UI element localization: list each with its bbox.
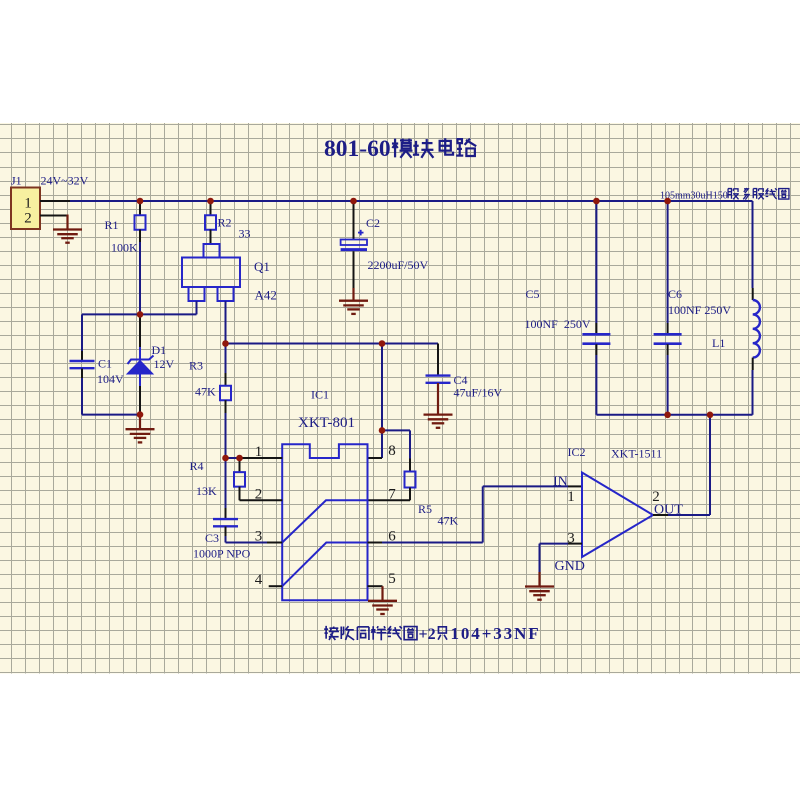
wire pin4 xyxy=(269,585,283,587)
wire R1 to node xyxy=(139,242,141,314)
wire IC2 pin3 xyxy=(540,544,583,572)
svg-text:100NF 250V: 100NF 250V xyxy=(668,303,731,317)
label XKT-1511 xyxy=(611,447,662,461)
wire pin3 xyxy=(226,542,283,544)
svg-text:104+33NF: 104+33NF xyxy=(451,624,541,643)
junction xyxy=(137,411,144,418)
label R1 xyxy=(105,218,119,232)
junction xyxy=(137,311,144,318)
svg-text:C3: C3 xyxy=(205,531,219,545)
svg-text:24V~32V: 24V~32V xyxy=(41,174,89,188)
label 100K xyxy=(111,241,138,255)
wire bottom rail xyxy=(596,414,752,416)
svg-text:2: 2 xyxy=(24,211,32,227)
svg-text:IC2: IC2 xyxy=(568,445,586,459)
IC2 pin 1 label xyxy=(567,489,575,505)
svg-text:100K: 100K xyxy=(111,241,138,255)
ground C2 xyxy=(339,288,368,314)
capacitor C4 xyxy=(426,344,451,415)
svg-text:Q1: Q1 xyxy=(254,259,270,274)
svg-text:R1: R1 xyxy=(105,218,119,232)
junction xyxy=(222,455,229,462)
pin 2 label xyxy=(255,487,263,503)
ground pin5 xyxy=(368,601,397,614)
junction xyxy=(593,198,600,205)
note 接收同样线圈+2只104+33NF xyxy=(324,624,540,643)
svg-text:R5: R5 xyxy=(418,502,432,516)
junction xyxy=(707,412,714,419)
svg-text:XKT-1511: XKT-1511 xyxy=(611,447,662,461)
label 47uF/16V xyxy=(454,386,503,400)
ground D1 xyxy=(126,415,155,443)
resistor R5 xyxy=(368,430,416,500)
inductor L1 xyxy=(753,201,760,415)
svg-text:2: 2 xyxy=(652,489,660,505)
svg-text:R2: R2 xyxy=(218,216,232,230)
label 33 xyxy=(239,227,251,241)
label 104V xyxy=(97,372,124,386)
svg-text:+2: +2 xyxy=(419,626,436,643)
pin 5 label xyxy=(388,571,396,587)
junction xyxy=(207,198,214,205)
wire pin1 xyxy=(226,457,283,459)
svg-text:104V: 104V xyxy=(97,372,124,386)
title 801-60模块电路 xyxy=(324,136,476,162)
pin 3 label xyxy=(255,529,263,545)
label R4 xyxy=(190,459,204,473)
svg-text:100NF 250V: 100NF 250V xyxy=(525,317,591,331)
svg-text:4: 4 xyxy=(255,572,263,588)
svg-text:J1: J1 xyxy=(11,174,22,188)
svg-text:5: 5 xyxy=(388,571,396,587)
wire pin8 branch xyxy=(368,430,411,458)
svg-text:A42: A42 xyxy=(255,288,277,303)
svg-text:2200uF/50V: 2200uF/50V xyxy=(368,258,429,272)
junction xyxy=(350,198,357,205)
junction xyxy=(137,198,144,205)
ground C4 xyxy=(424,415,453,428)
label IN xyxy=(553,475,568,490)
label R3 xyxy=(189,359,203,373)
label OUT xyxy=(654,503,683,518)
IC2 pin 3 label xyxy=(567,531,575,547)
svg-text:XKT-801: XKT-801 xyxy=(298,415,355,431)
svg-text:47K: 47K xyxy=(438,514,459,528)
label R5 xyxy=(418,502,432,516)
label C2 xyxy=(366,216,380,230)
pin 8 label xyxy=(388,443,396,459)
svg-text:IC1: IC1 xyxy=(311,388,329,402)
label A42 xyxy=(255,288,277,303)
svg-text:R3: R3 xyxy=(189,359,203,373)
svg-text:801-60: 801-60 xyxy=(324,136,391,162)
label 13K xyxy=(196,484,217,498)
capacitor C3 xyxy=(213,458,238,543)
label 2200uF/50V xyxy=(368,258,429,272)
wire node A horizontal xyxy=(82,313,197,315)
wire pin8 riser xyxy=(381,344,383,431)
wire OUT xyxy=(653,415,710,515)
connector J1 xyxy=(11,188,40,230)
svg-text:IN: IN xyxy=(553,475,568,490)
label GND xyxy=(555,559,585,574)
wire +V rail xyxy=(40,200,753,202)
label 100NF 250V C6 xyxy=(668,303,731,317)
pin 4 label xyxy=(255,572,263,588)
label D1 xyxy=(152,343,167,357)
junction xyxy=(236,455,243,462)
svg-text:47K: 47K xyxy=(195,385,216,399)
resistor R1 xyxy=(135,202,146,242)
svg-text:47uF/16V: 47uF/16V xyxy=(454,386,503,400)
svg-text:L1: L1 xyxy=(712,336,725,350)
label C1 xyxy=(98,357,112,371)
svg-text:13K: 13K xyxy=(196,484,217,498)
label C5 xyxy=(526,287,540,301)
label L1 xyxy=(712,336,725,350)
wire C1 bottom xyxy=(82,414,140,416)
capacitor C1 xyxy=(70,314,95,414)
svg-text:8: 8 xyxy=(388,443,396,459)
ground IC2 xyxy=(525,572,554,600)
svg-text:GND: GND xyxy=(555,559,585,574)
pin 1 label xyxy=(255,444,263,460)
IC2 pin 2 label xyxy=(652,489,660,505)
wire pin6 to IC2 IN xyxy=(368,486,583,542)
label R2 xyxy=(218,216,232,230)
wire Q1 collector xyxy=(225,301,227,344)
svg-text:D1: D1 xyxy=(152,343,167,357)
svg-text:1: 1 xyxy=(24,196,32,212)
wire J1 pin2 xyxy=(40,215,68,230)
label IC2 xyxy=(568,445,586,459)
capacitor C2 xyxy=(341,202,367,288)
label J1 xyxy=(11,174,22,188)
svg-text:R4: R4 xyxy=(190,459,204,473)
capacitor C6 xyxy=(654,201,682,415)
label 24V~32V xyxy=(41,174,89,188)
IC U2 XKT-1511 amp xyxy=(582,473,653,558)
junction xyxy=(664,412,671,419)
svg-text:1000P NPO: 1000P NPO xyxy=(193,547,251,561)
label C6 xyxy=(668,287,682,301)
label 47K R3 xyxy=(195,385,216,399)
junction xyxy=(664,198,671,205)
junction xyxy=(379,340,386,347)
wire pin5 xyxy=(368,586,383,601)
label XKT-801 xyxy=(298,415,355,431)
svg-text:33: 33 xyxy=(239,227,251,241)
resistor R3 xyxy=(220,344,231,459)
label Q1 xyxy=(254,259,270,274)
svg-text:12V: 12V xyxy=(154,357,175,371)
svg-text:C1: C1 xyxy=(98,357,112,371)
diode D1 zener xyxy=(127,315,154,413)
label 100NF 250V C5 xyxy=(525,317,591,331)
capacitor C5 xyxy=(582,201,610,415)
transistor Q1 xyxy=(182,244,240,301)
svg-text:C2: C2 xyxy=(366,216,380,230)
svg-text:1: 1 xyxy=(567,489,575,505)
svg-text:C5: C5 xyxy=(526,287,540,301)
label 47K R5 xyxy=(438,514,459,528)
resistor R2 xyxy=(205,202,216,244)
label C4 xyxy=(454,373,468,387)
wire node B horizontal xyxy=(226,343,439,345)
label 12V xyxy=(154,357,175,371)
junction xyxy=(379,427,386,434)
note 105mm30uH150股多股线圈 xyxy=(660,188,789,201)
label 1000P NPO xyxy=(193,547,251,561)
pin 7 label xyxy=(388,487,396,503)
wire Q1 emitter xyxy=(196,301,198,314)
resistor R4 xyxy=(234,458,282,500)
label C3 xyxy=(205,531,219,545)
label IC1 xyxy=(311,388,329,402)
junction xyxy=(222,340,229,347)
IC U1 XKT-801 xyxy=(282,444,367,600)
svg-text:7: 7 xyxy=(388,487,396,503)
ground J1 xyxy=(53,230,82,243)
svg-text:C6: C6 xyxy=(668,287,682,301)
pin 6 label xyxy=(388,529,396,545)
